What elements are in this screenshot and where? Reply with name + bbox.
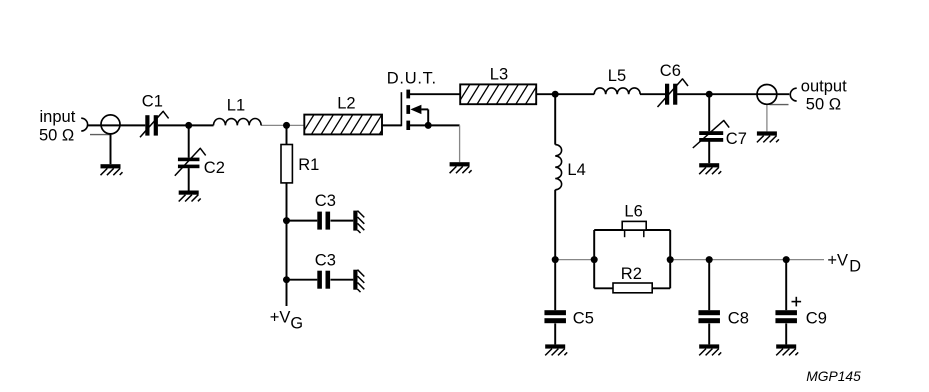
svg-text:50 Ω: 50 Ω: [39, 127, 74, 145]
svg-text:MGP145: MGP145: [806, 369, 861, 384]
svg-text:C2: C2: [204, 159, 225, 177]
svg-text:50 Ω: 50 Ω: [806, 96, 841, 114]
svg-text:C7: C7: [726, 130, 747, 148]
svg-text:L6: L6: [624, 203, 642, 221]
svg-text:+V: +V: [270, 309, 291, 327]
svg-text:input: input: [40, 108, 76, 126]
svg-text:C1: C1: [142, 92, 163, 110]
svg-text:C3: C3: [315, 251, 336, 269]
svg-text:D.U.T.: D.U.T.: [387, 70, 437, 88]
svg-text:L3: L3: [490, 66, 508, 84]
svg-text:R2: R2: [621, 265, 642, 283]
svg-text:L2: L2: [337, 94, 355, 112]
svg-text:D: D: [849, 257, 861, 275]
svg-text:C3: C3: [315, 192, 336, 210]
svg-text:R1: R1: [298, 156, 319, 174]
svg-text:+V: +V: [827, 252, 848, 270]
svg-text:C9: C9: [806, 309, 827, 327]
svg-text:C5: C5: [573, 309, 594, 327]
svg-text:L4: L4: [567, 161, 585, 179]
svg-text:L5: L5: [608, 67, 626, 85]
svg-text:C8: C8: [728, 309, 749, 327]
svg-text:output: output: [801, 78, 847, 96]
svg-text:G: G: [290, 315, 303, 333]
svg-text:L1: L1: [227, 97, 245, 115]
svg-text:C6: C6: [660, 62, 681, 80]
